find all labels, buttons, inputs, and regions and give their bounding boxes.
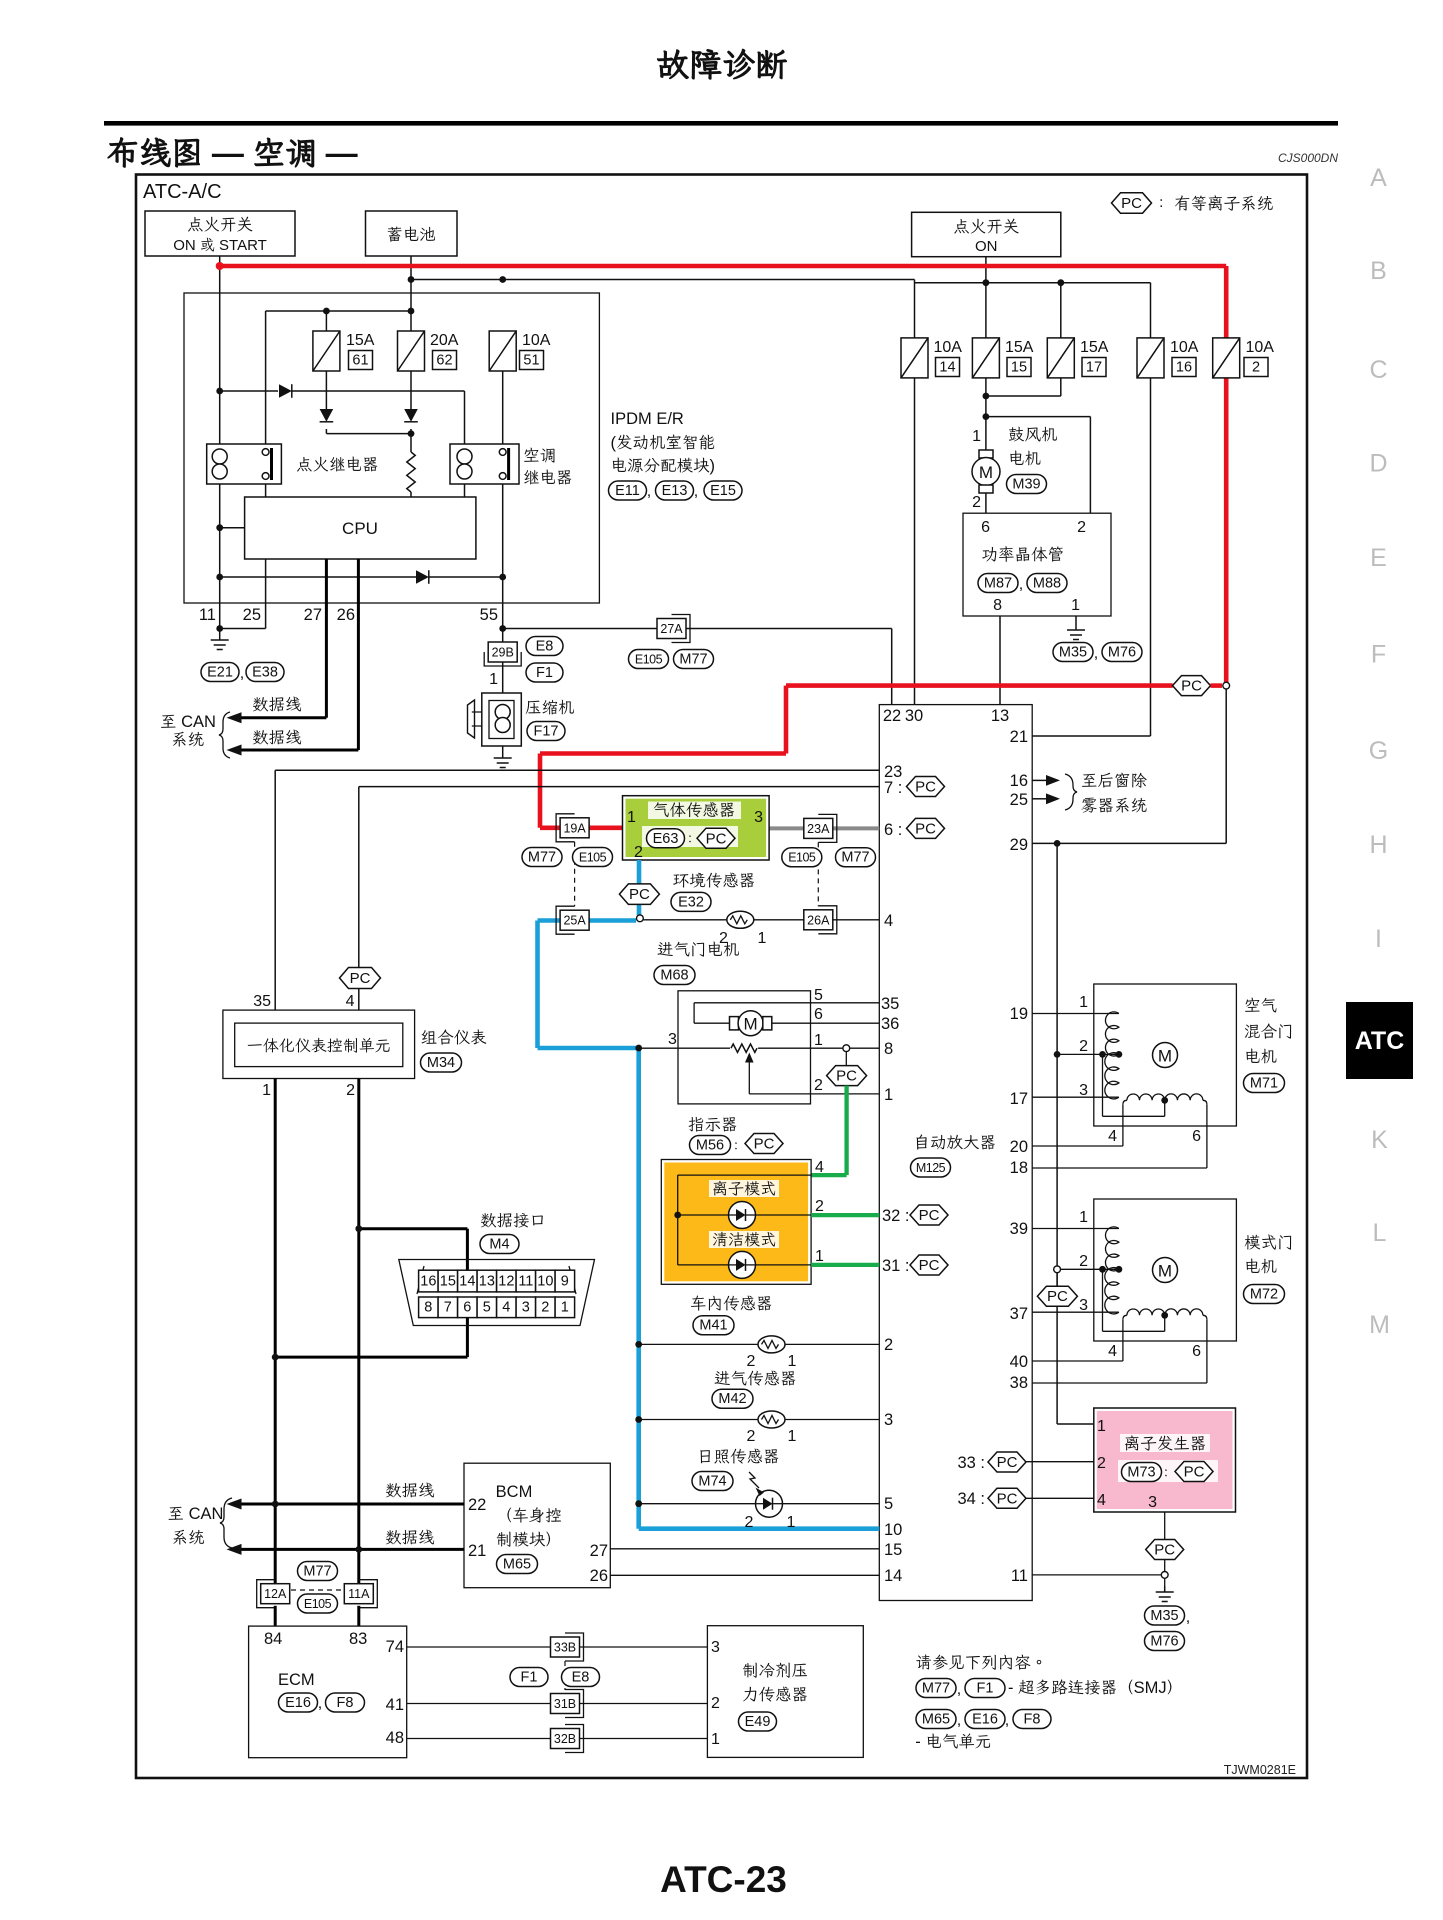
svg-text:至 CAN: 至 CAN xyxy=(168,1505,224,1523)
M68 pin 3 wire with potentiometer xyxy=(641,1044,879,1052)
svg-text:E21: E21 xyxy=(207,665,233,681)
label 数据线 BCM upper xyxy=(385,1482,435,1500)
svg-text:2: 2 xyxy=(634,844,643,861)
svg-text:M41: M41 xyxy=(699,1318,727,1334)
M72 pin 3 xyxy=(1079,1297,1088,1314)
stepper horizontal winding xyxy=(1123,1309,1207,1319)
svg-text:11: 11 xyxy=(518,1274,533,1290)
label 压缩机 F17 xyxy=(525,699,575,741)
svg-text:15: 15 xyxy=(1011,360,1027,376)
junction pin11/pin25 xyxy=(216,625,223,632)
PC hexagon indicator feed xyxy=(827,1066,867,1086)
connector 29B xyxy=(484,642,521,666)
svg-text:10: 10 xyxy=(537,1274,553,1290)
svg-text:故障诊断: 故障诊断 xyxy=(656,46,788,83)
svg-text:1: 1 xyxy=(787,1514,796,1531)
svg-text:数据接口: 数据接口 xyxy=(480,1212,546,1230)
sunload sensor wire to amp pin 5 xyxy=(635,1500,879,1507)
wire pin 4 to amp xyxy=(1032,1104,1123,1146)
wire fuse 62 to diode xyxy=(410,371,412,434)
svg-text:：: ： xyxy=(729,1139,744,1155)
svg-text:2: 2 xyxy=(1252,360,1260,376)
wire BCM 26 to amp 14 xyxy=(610,1574,879,1576)
note M77 F1 SMJ xyxy=(916,1679,1183,1699)
svg-text:电机: 电机 xyxy=(1008,450,1041,468)
svg-text:(发动机室智能: (发动机室智能 xyxy=(611,434,716,452)
ambient pin 1 xyxy=(758,930,767,947)
svg-text:15A: 15A xyxy=(1080,339,1109,356)
amp pin 34 with PC xyxy=(957,1488,1026,1508)
svg-text:29: 29 xyxy=(1010,836,1028,854)
svg-text:BCM: BCM xyxy=(496,1483,533,1501)
stepper winding lower coil xyxy=(1105,1053,1119,1099)
svg-text:制模块）: 制模块） xyxy=(496,1531,562,1549)
fuse 10A 51 xyxy=(489,331,551,371)
svg-text:PC: PC xyxy=(1181,678,1202,695)
green wire PC to indicator pin 4 xyxy=(811,1086,847,1176)
code CJS000DN xyxy=(1278,151,1338,165)
wire amp 33 to ion pin 2 xyxy=(1026,1461,1094,1463)
junction fuse61 header xyxy=(323,308,330,315)
svg-text:组合仪表: 组合仪表 xyxy=(421,1029,488,1047)
intake door motor box xyxy=(678,991,811,1104)
svg-text:力传感器: 力传感器 xyxy=(742,1686,808,1704)
connector 33B xyxy=(551,1633,584,1661)
svg-text:27: 27 xyxy=(590,1542,608,1560)
fuse 15A 17 xyxy=(1047,338,1108,378)
svg-text:2: 2 xyxy=(1097,1455,1106,1472)
intake pin 2 xyxy=(747,1428,756,1445)
svg-text:PC: PC xyxy=(919,1207,940,1224)
svg-text:7 :: 7 : xyxy=(884,779,902,797)
svg-text:布线图 — 空调 —: 布线图 — 空调 — xyxy=(107,135,358,171)
svg-text:点火开关: 点火开关 xyxy=(187,216,253,234)
svg-text:15: 15 xyxy=(440,1274,456,1290)
svg-text:E: E xyxy=(1370,544,1387,572)
E49 labels xyxy=(739,1662,809,1731)
compressor pin 1 xyxy=(489,671,498,688)
M72 pin 2 tap ring xyxy=(1054,1266,1061,1273)
IPDM pin 11 xyxy=(199,606,216,624)
svg-text:8: 8 xyxy=(993,597,1002,614)
svg-text:12: 12 xyxy=(498,1274,514,1290)
junction pin55/compressor xyxy=(499,625,506,632)
svg-text:PC: PC xyxy=(1047,1288,1068,1305)
svg-text:29B: 29B xyxy=(492,646,514,660)
junction blower/transistor xyxy=(983,413,990,420)
wire ignition ON down to fuse 15 xyxy=(985,257,987,338)
svg-text:,: , xyxy=(694,483,698,500)
svg-text:离子模式: 离子模式 xyxy=(712,1180,776,1198)
svg-text:E105: E105 xyxy=(579,851,607,865)
diagram label ATC-A/C xyxy=(143,181,222,203)
label 离子发生器 M73 PC xyxy=(1118,1434,1218,1482)
svg-text:10A: 10A xyxy=(522,332,551,349)
connector 19A xyxy=(556,814,589,842)
junction dot pin29/bus xyxy=(1054,840,1061,847)
M68 pin 6 xyxy=(814,1006,823,1023)
svg-text:33B: 33B xyxy=(554,1641,576,1655)
fuse 10A 14 xyxy=(901,338,962,378)
svg-text:E11: E11 xyxy=(615,483,640,499)
ground E21 E38 xyxy=(201,634,284,682)
svg-text:1: 1 xyxy=(1079,1209,1088,1226)
in-car pin 1 xyxy=(788,1353,797,1370)
ignition switch ON/START box xyxy=(145,211,295,256)
label 空调继电器 xyxy=(523,447,573,487)
amp pin 30 xyxy=(905,707,923,725)
svg-text:M65: M65 xyxy=(922,1712,950,1728)
in-car pin 2 xyxy=(747,1353,756,1370)
auto amp M125 box xyxy=(879,705,1032,1601)
resistor to CPU xyxy=(407,434,415,497)
svg-text:M77: M77 xyxy=(528,850,556,866)
wire right bus down to ion generator pin 1 xyxy=(1057,843,1094,1424)
wire fuse 14 down to amp pin 30 xyxy=(914,378,916,705)
svg-text:I: I xyxy=(1375,925,1382,953)
svg-text:M39: M39 xyxy=(1012,477,1040,493)
wire meter pin 2 to DLC pin 14 xyxy=(355,1225,467,1270)
svg-text:IPDM E/R: IPDM E/R xyxy=(611,410,684,428)
wire BCM 27 to amp 15 xyxy=(610,1548,879,1550)
svg-text:PC: PC xyxy=(706,830,727,847)
indicator pin 1 xyxy=(815,1248,824,1265)
svg-text:13: 13 xyxy=(991,707,1009,725)
red wire main feed xyxy=(216,262,1226,684)
svg-text:4: 4 xyxy=(1108,1343,1117,1360)
refrigerant pressure sensor box xyxy=(707,1626,863,1758)
margin letter F xyxy=(1371,641,1386,669)
svg-text:6: 6 xyxy=(981,519,990,536)
ignition relay xyxy=(207,444,282,484)
amp pin 6 with PC xyxy=(884,818,945,839)
CAN wire meter pin 2 down xyxy=(357,1079,360,1584)
wire fuse 61 to diode xyxy=(326,371,411,434)
svg-text:33 :: 33 : xyxy=(957,1454,985,1472)
wire center tap to pin 2 xyxy=(1103,1054,1165,1116)
connector 11A xyxy=(344,1580,377,1608)
dashed link 23A-26A xyxy=(817,842,819,906)
wire 12A to ECM 84 xyxy=(274,1606,277,1626)
A/C relay xyxy=(450,444,519,484)
gas sensor pin 3 xyxy=(754,809,763,826)
svg-text:PC: PC xyxy=(350,970,371,987)
svg-text:4: 4 xyxy=(815,1159,824,1176)
svg-text:雾器系统: 雾器系统 xyxy=(1081,797,1147,815)
amp pin 3 xyxy=(884,1411,893,1429)
margin letter L xyxy=(1373,1219,1387,1247)
svg-text:11: 11 xyxy=(1011,1567,1028,1585)
drawing code TJWM0281E xyxy=(1224,1763,1296,1777)
amp pin 4 xyxy=(884,912,893,930)
amp pin 13 xyxy=(991,707,1009,725)
svg-text:25: 25 xyxy=(1010,791,1028,809)
svg-text:35: 35 xyxy=(881,995,899,1013)
svg-text:D: D xyxy=(1369,450,1387,478)
amp pin 25 arrow to defogger xyxy=(1010,791,1060,809)
svg-text:,: , xyxy=(1005,1712,1009,1729)
junction fuse15/17 join xyxy=(983,393,990,400)
svg-text:2: 2 xyxy=(972,494,981,511)
svg-text:26: 26 xyxy=(590,1567,608,1585)
svg-text:PC: PC xyxy=(1121,195,1142,212)
svg-text:混合门: 混合门 xyxy=(1244,1023,1294,1041)
svg-text:1: 1 xyxy=(489,671,498,688)
connector 12A xyxy=(257,1580,290,1608)
gas sensor E63 box xyxy=(623,796,770,860)
data link connector M4 xyxy=(399,1260,595,1326)
stepper winding lower coil xyxy=(1105,1268,1119,1314)
svg-text:21: 21 xyxy=(1010,728,1028,746)
battery box xyxy=(366,211,458,256)
svg-text:M: M xyxy=(744,1015,758,1034)
meter pin 35 xyxy=(253,993,271,1010)
labels E8 F1 at 29B xyxy=(526,637,563,683)
margin letter I xyxy=(1375,925,1382,953)
svg-text:6: 6 xyxy=(1192,1128,1201,1145)
label 自动放大器 M125 xyxy=(911,1134,997,1177)
svg-text:PC: PC xyxy=(915,820,936,837)
wire fuse61/62 header xyxy=(266,311,411,444)
svg-text:5: 5 xyxy=(814,987,823,1004)
blower pin 1 xyxy=(972,428,981,445)
svg-text:5: 5 xyxy=(884,1495,893,1513)
svg-text:3: 3 xyxy=(1079,1082,1088,1099)
svg-text:E8: E8 xyxy=(572,1670,590,1686)
BCM pin 21 xyxy=(468,1542,486,1560)
svg-text:功率晶体管: 功率晶体管 xyxy=(982,546,1065,564)
svg-text:38: 38 xyxy=(1010,1374,1028,1392)
M71 pin 4 xyxy=(1108,1128,1117,1145)
ECM pin 41 xyxy=(386,1696,404,1714)
svg-text:1: 1 xyxy=(815,1248,824,1265)
label 指示器 M56 PC xyxy=(688,1116,783,1155)
intake pin 1 xyxy=(788,1428,797,1445)
label 至 CAN 系统 (upper) xyxy=(160,712,230,758)
svg-text:13: 13 xyxy=(479,1274,495,1290)
ECM box xyxy=(249,1626,407,1758)
labels E105 M77 at 23A xyxy=(782,848,876,867)
page number ATC-23 xyxy=(660,1859,787,1900)
LED clean mode xyxy=(729,1251,756,1278)
svg-text:4: 4 xyxy=(346,993,355,1010)
BCM pin 26 xyxy=(590,1567,608,1585)
ATC tab xyxy=(1346,1002,1413,1079)
svg-text:离子发生器: 离子发生器 xyxy=(1124,1435,1207,1453)
junction fuse62 header xyxy=(408,308,415,315)
svg-text:7: 7 xyxy=(444,1300,452,1316)
label 至后窗除雾器系统 xyxy=(1081,772,1148,815)
svg-text:蓄电池: 蓄电池 xyxy=(386,226,436,244)
svg-text:空气: 空气 xyxy=(1244,997,1277,1015)
amp pin 32 with PC xyxy=(882,1205,948,1225)
IPDM pin 26 xyxy=(337,606,355,624)
svg-text:系统: 系统 xyxy=(172,1529,205,1547)
svg-text:M74: M74 xyxy=(698,1474,726,1490)
M71 pin 1 xyxy=(1079,994,1088,1011)
label 环境传感器 E32 xyxy=(671,872,755,911)
svg-text:车内传感器: 车内传感器 xyxy=(690,1295,773,1313)
M68 wiper arrow to pin 2 xyxy=(745,1053,879,1094)
junction fuse17 tap xyxy=(1057,279,1064,286)
IPDM label block E11 E13 E15 xyxy=(609,410,743,500)
margin letter D xyxy=(1369,450,1387,478)
svg-text:1: 1 xyxy=(1097,1418,1106,1435)
sunload pin 2 xyxy=(745,1514,754,1531)
svg-text:19A: 19A xyxy=(563,821,586,835)
svg-text:48: 48 xyxy=(386,1729,404,1747)
svg-text:1: 1 xyxy=(1071,597,1080,614)
svg-text:数据线: 数据线 xyxy=(385,1482,435,1500)
ion pin 1 xyxy=(1097,1418,1106,1435)
label 至 CAN 系统 (lower) xyxy=(168,1498,233,1548)
wire CPU left to ignition line xyxy=(220,527,245,529)
diode under fuse 62 xyxy=(404,409,418,422)
svg-text:61: 61 xyxy=(352,353,368,369)
svg-text:M65: M65 xyxy=(503,1557,531,1573)
svg-text:84: 84 xyxy=(264,1630,282,1648)
ignition switch ON box xyxy=(912,212,1061,256)
amp pin 8 xyxy=(884,1040,893,1058)
svg-text:2: 2 xyxy=(1079,1038,1088,1055)
amp pin 21 xyxy=(1010,728,1028,746)
diode CPU to pin 55 line xyxy=(416,570,429,584)
in-car sensor wire to amp pin 2 xyxy=(635,1341,879,1348)
amp pin 19 xyxy=(1010,1005,1028,1023)
wire pin 2 junction xyxy=(1057,1051,1122,1058)
amp pin 18 xyxy=(1010,1159,1028,1177)
wire ignition relay contact (pin 25) xyxy=(220,484,266,629)
svg-text:F17: F17 xyxy=(534,724,559,740)
svg-text:鼓风机: 鼓风机 xyxy=(1008,426,1058,444)
CPU box xyxy=(245,497,476,559)
stepper box xyxy=(1094,984,1237,1126)
wire amp to pin 3 (coil bottom) xyxy=(1032,1311,1119,1313)
svg-text:16: 16 xyxy=(420,1274,436,1290)
svg-text:3: 3 xyxy=(668,1031,677,1048)
wire A/C relay coil to CPU xyxy=(464,484,466,497)
E49 pin 3 xyxy=(711,1639,720,1656)
svg-text:,: , xyxy=(647,483,651,500)
meter pin 1 xyxy=(262,1082,271,1099)
wire pin 6 to amp xyxy=(1032,1104,1207,1168)
svg-text:3: 3 xyxy=(754,809,763,826)
svg-text:E63: E63 xyxy=(653,831,679,847)
amp pin 40 xyxy=(1010,1353,1028,1371)
label 点火继电器 xyxy=(296,456,379,474)
svg-text:ON: ON xyxy=(975,238,998,255)
svg-text:M77: M77 xyxy=(922,1681,950,1697)
ECM pin 83 xyxy=(349,1630,367,1648)
junction diode outputs xyxy=(408,430,415,437)
junction ring red/black xyxy=(1223,682,1230,689)
svg-text:4: 4 xyxy=(884,912,893,930)
svg-text:20A: 20A xyxy=(430,332,459,349)
svg-text:2: 2 xyxy=(814,1077,823,1094)
svg-text:M72: M72 xyxy=(1250,1287,1278,1303)
svg-text:4: 4 xyxy=(1108,1128,1117,1145)
label 数据线 (upper) xyxy=(252,696,302,714)
fuse 10A 16 xyxy=(1137,338,1199,378)
svg-text:1: 1 xyxy=(972,428,981,445)
svg-text:35: 35 xyxy=(253,993,271,1010)
wire fuse 15+17 join xyxy=(986,378,1061,443)
gas sensor pin 1 xyxy=(627,809,636,826)
wire A/C relay contact (pin 55) xyxy=(502,371,504,646)
margin letter A xyxy=(1370,164,1387,192)
amp pin 15 xyxy=(884,1541,902,1559)
svg-text:M71: M71 xyxy=(1250,1076,1278,1092)
wire battery feed bus to right fuse bank xyxy=(411,280,915,338)
svg-text:74: 74 xyxy=(386,1638,404,1656)
amp pin 29 xyxy=(1010,836,1028,854)
svg-text:TJWM0281E: TJWM0281E xyxy=(1224,1763,1296,1777)
svg-text:M77: M77 xyxy=(841,850,869,866)
connector 26A xyxy=(804,906,837,934)
label 数据接口 M4 xyxy=(480,1212,546,1254)
fuse 10A 2 xyxy=(1213,338,1275,378)
junction ring ambient sensor xyxy=(637,915,644,922)
meter pin 4 xyxy=(346,993,355,1010)
svg-text:系统: 系统 xyxy=(171,731,204,749)
svg-text:- 电气单元: - 电气单元 xyxy=(915,1733,991,1751)
svg-text:M35: M35 xyxy=(1150,1608,1178,1624)
svg-text:数据线: 数据线 xyxy=(252,696,302,714)
svg-text:进气门电机: 进气门电机 xyxy=(657,941,740,959)
svg-text:- 超多路连接器（SMJ）: - 超多路连接器（SMJ） xyxy=(1008,1679,1183,1697)
svg-text:H: H xyxy=(1369,831,1387,859)
svg-text:5: 5 xyxy=(483,1300,491,1316)
svg-text:,: , xyxy=(957,1681,961,1698)
svg-text:请参见下列内容。: 请参见下列内容。 xyxy=(915,1654,1047,1672)
labels F1 E8 at 33B xyxy=(510,1668,600,1687)
svg-text:2: 2 xyxy=(541,1300,549,1316)
svg-text:27: 27 xyxy=(304,606,322,624)
amp pin 7 with PC xyxy=(884,777,945,798)
svg-text:1: 1 xyxy=(561,1300,569,1316)
note 请参见下列内容 xyxy=(915,1654,1047,1672)
gray wire gas sensor pin 3 to amp pin 6 xyxy=(769,826,879,830)
margin letter G xyxy=(1369,737,1388,765)
wire amp pin 7 to combi meter pin 4 xyxy=(359,787,880,1011)
svg-text:M: M xyxy=(1158,1262,1172,1281)
svg-text:23A: 23A xyxy=(807,822,830,836)
label 数据线 (lower) xyxy=(252,729,302,747)
brace to defogger note xyxy=(1065,774,1077,810)
sunload pin 1 xyxy=(787,1514,796,1531)
wire transistor pin 8 to amp pin 13 xyxy=(999,616,1001,705)
svg-text:K: K xyxy=(1371,1126,1388,1154)
svg-text:3: 3 xyxy=(884,1411,893,1429)
wire PC to ground ring xyxy=(1164,1560,1166,1572)
diagram border frame xyxy=(136,175,1307,1779)
labels M77 E105 at 19A xyxy=(522,848,613,867)
svg-text:E16: E16 xyxy=(972,1712,998,1728)
svg-text:1: 1 xyxy=(814,1032,823,1049)
svg-text:：: ： xyxy=(1159,1466,1174,1482)
svg-text:E105: E105 xyxy=(635,653,663,667)
junction battery/feed xyxy=(408,276,415,283)
blower motor M39 xyxy=(972,443,1000,513)
M72 pin 2 xyxy=(1079,1253,1088,1270)
svg-text:E32: E32 xyxy=(678,894,704,910)
svg-text:11: 11 xyxy=(199,606,216,624)
M71 motor symbol xyxy=(1153,1043,1178,1068)
svg-text:4: 4 xyxy=(502,1300,510,1316)
svg-text:点火继电器: 点火继电器 xyxy=(296,456,379,474)
IPDM pin 27 xyxy=(304,606,322,624)
red wire lower run to gas sensor xyxy=(540,686,1173,828)
